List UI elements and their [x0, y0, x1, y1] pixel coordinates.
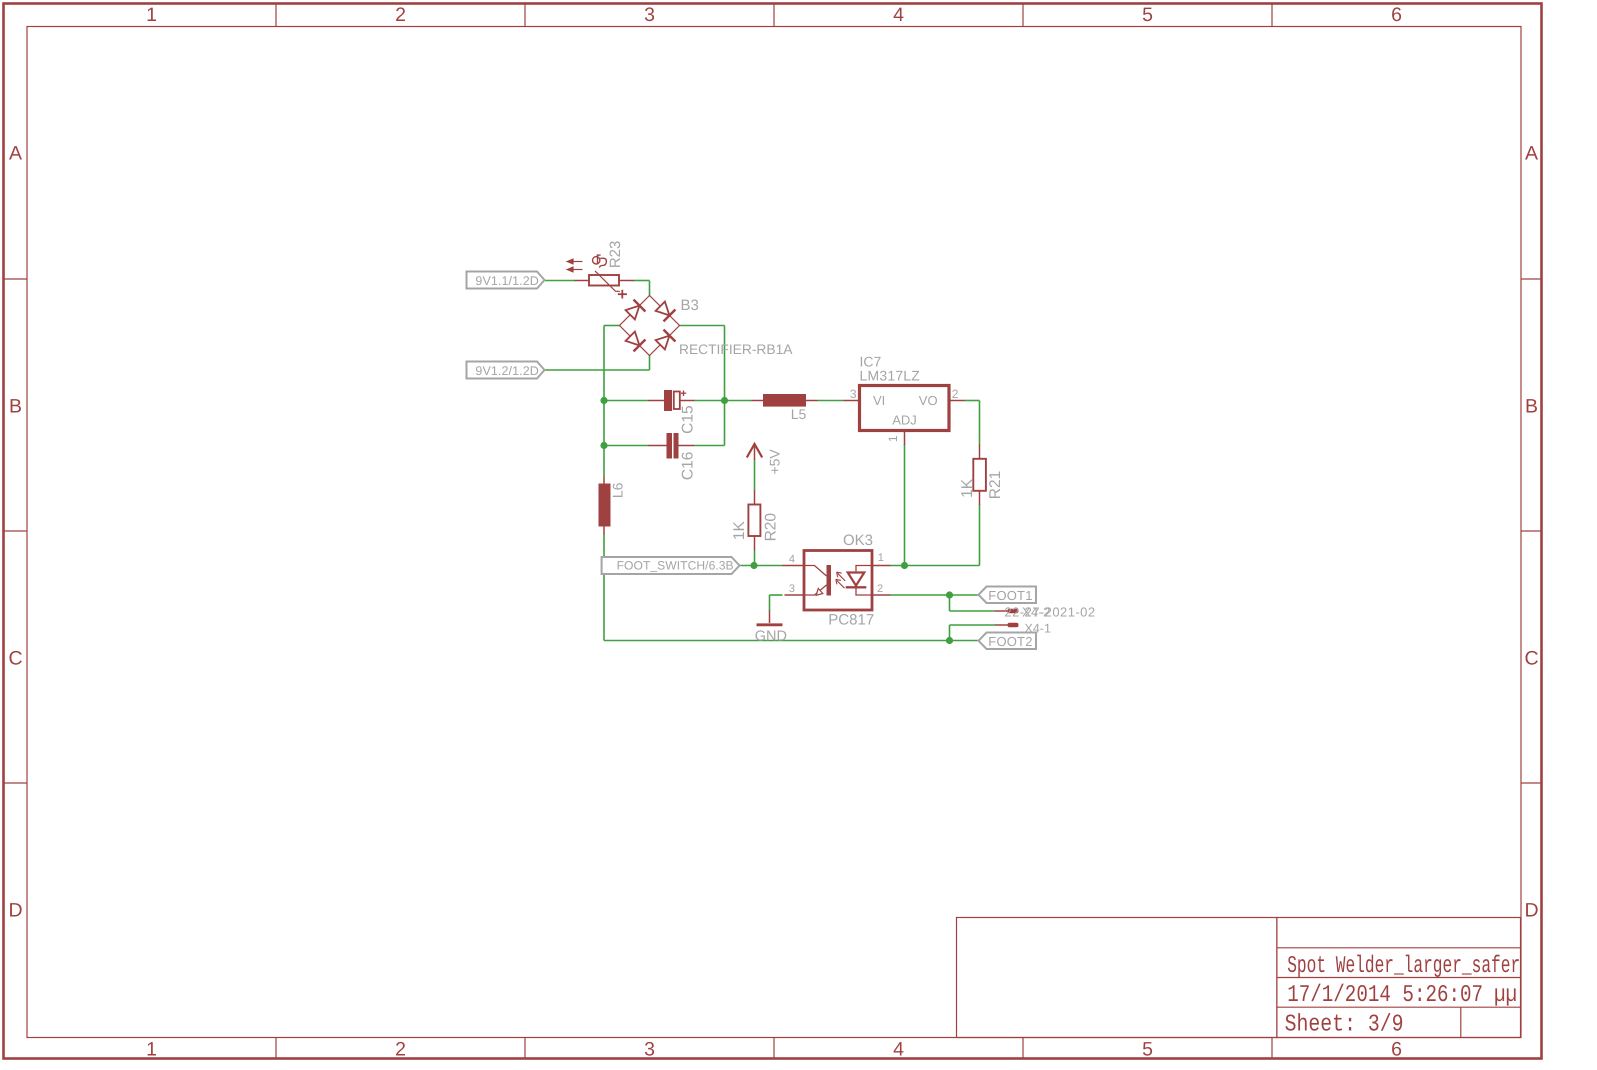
svg-text:1: 1: [146, 4, 157, 26]
svg-text:RECTIFIER-RB1A: RECTIFIER-RB1A: [679, 342, 793, 357]
svg-text:GND: GND: [755, 629, 787, 645]
svg-text:1: 1: [886, 435, 900, 442]
svg-text:L5: L5: [791, 406, 807, 422]
svg-text:9V1.1/1.2D: 9V1.1/1.2D: [475, 274, 539, 288]
svg-text:1K: 1K: [959, 478, 976, 498]
svg-text:1K: 1K: [731, 520, 748, 540]
svg-text:6: 6: [1391, 1039, 1402, 1061]
svg-text:4: 4: [789, 553, 795, 565]
svg-text:FOOT_SWITCH/6.3B: FOOT_SWITCH/6.3B: [617, 559, 734, 573]
svg-text:D: D: [1524, 900, 1538, 922]
svg-text:Sheet: 3/9: Sheet: 3/9: [1285, 1011, 1404, 1038]
svg-text:+5V: +5V: [767, 449, 783, 475]
svg-text:A: A: [9, 143, 22, 165]
svg-text:5: 5: [1142, 4, 1153, 26]
svg-text:C: C: [1524, 648, 1538, 670]
svg-text:C16: C16: [679, 452, 696, 480]
svg-text:FOOT1: FOOT1: [988, 588, 1032, 603]
svg-text:5: 5: [1142, 1039, 1153, 1061]
svg-text:2: 2: [877, 583, 883, 595]
svg-text:Spot Welder_larger_safer: Spot Welder_larger_safer: [1287, 953, 1520, 980]
svg-text:C: C: [8, 648, 22, 670]
svg-text:PC817: PC817: [828, 611, 874, 628]
svg-text:2: 2: [952, 387, 959, 401]
svg-text:X4-1: X4-1: [1025, 621, 1051, 635]
svg-text:2: 2: [395, 4, 406, 26]
svg-text:R21: R21: [987, 471, 1004, 499]
svg-text:LM317LZ: LM317LZ: [860, 368, 921, 384]
svg-text:9V1.2/1.2D: 9V1.2/1.2D: [475, 364, 539, 378]
svg-text:µµ: µµ: [1494, 982, 1517, 1009]
svg-text:B3: B3: [681, 297, 699, 314]
svg-text:3: 3: [789, 583, 795, 595]
svg-text:6: 6: [1391, 4, 1402, 26]
svg-text:4: 4: [893, 4, 904, 26]
svg-text:3: 3: [644, 1039, 655, 1061]
svg-text:4: 4: [893, 1039, 904, 1061]
svg-text:1: 1: [146, 1039, 157, 1061]
svg-text:X4-2: X4-2: [1022, 604, 1051, 619]
svg-text:B: B: [9, 396, 22, 418]
svg-text:R23: R23: [607, 241, 624, 269]
svg-text:1: 1: [878, 552, 884, 564]
svg-text:OK3: OK3: [843, 532, 873, 549]
svg-text:VO: VO: [919, 393, 938, 408]
svg-text:A: A: [1525, 143, 1538, 165]
svg-text:FOOT2: FOOT2: [988, 634, 1032, 649]
svg-text:ADJ: ADJ: [892, 412, 917, 427]
svg-text:2: 2: [395, 1039, 406, 1061]
svg-text:L6: L6: [609, 482, 625, 498]
svg-text:B: B: [1525, 396, 1538, 418]
svg-text:3: 3: [850, 387, 857, 401]
svg-text:3: 3: [644, 4, 655, 26]
svg-text:D: D: [8, 900, 22, 922]
svg-text:VI: VI: [873, 393, 885, 408]
svg-text:R20: R20: [762, 513, 779, 542]
svg-text:C15: C15: [679, 405, 696, 433]
svg-text:17/1/2014 5:26:07: 17/1/2014 5:26:07: [1287, 982, 1483, 1009]
